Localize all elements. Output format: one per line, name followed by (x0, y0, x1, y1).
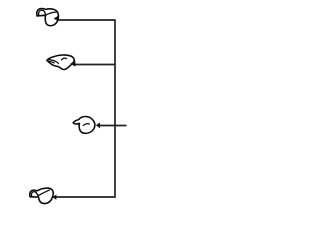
icon 2: recumbent fold sketch (second) (47, 55, 75, 70)
wire: second horizontal segment (75, 64, 115, 66)
arrowhead 1 (tilted, pointing up-left at icon 1) (54, 16, 59, 21)
arrowhead 4 (pointing left at icon 4) (52, 195, 56, 200)
icon 3: spouted blob sketch (third) (73, 116, 95, 133)
icon 4: angular fold sketch (bottom) (30, 188, 54, 203)
wire: top horizontal segment (58, 19, 115, 21)
wire: third horizontal segment crossing vertical line (100, 125, 127, 127)
arrowhead 2 (pointing left at icon 2) (70, 61, 75, 67)
wire: right vertical segment (114, 19, 116, 198)
wire: bottom horizontal segment (56, 196, 115, 198)
icon 1: rolled fold sketch (top left) (37, 9, 59, 26)
arrowhead 3 (pointing left at icon 3) (96, 123, 100, 129)
